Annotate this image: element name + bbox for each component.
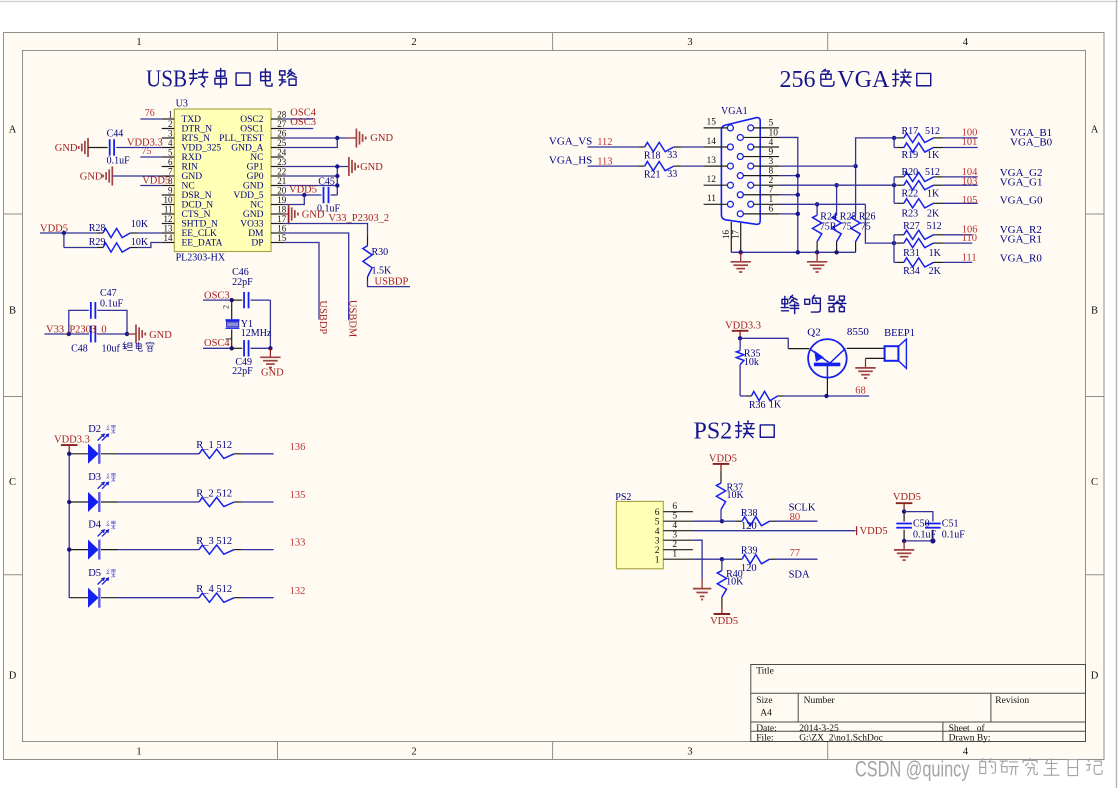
svg-text:GND: GND — [182, 172, 203, 182]
svg-text:6: 6 — [672, 502, 677, 512]
svg-text:22: 22 — [277, 166, 286, 176]
svg-text:68: 68 — [855, 386, 866, 397]
svg-text:GND: GND — [370, 133, 393, 144]
svg-text:16: 16 — [721, 230, 731, 240]
svg-text:SDA: SDA — [789, 570, 810, 581]
svg-text:GND_A: GND_A — [231, 144, 263, 154]
svg-text:10K: 10K — [727, 490, 745, 501]
svg-text:VDD5: VDD5 — [860, 526, 888, 537]
svg-text:17: 17 — [731, 230, 741, 240]
svg-text:D: D — [1091, 671, 1099, 682]
svg-text:USBDM: USBDM — [347, 300, 358, 338]
svg-text:1: 1 — [672, 549, 677, 559]
svg-text:2K: 2K — [929, 266, 942, 277]
svg-text:R_3 512: R_3 512 — [196, 536, 232, 547]
svg-text:2K: 2K — [927, 208, 940, 219]
svg-text:GP1: GP1 — [247, 163, 264, 173]
svg-text:PS2: PS2 — [615, 492, 631, 503]
svg-text:132: 132 — [290, 586, 306, 597]
svg-text:RXD: RXD — [182, 153, 202, 163]
svg-text:C: C — [1091, 477, 1098, 488]
svg-text:B: B — [9, 306, 16, 317]
svg-text:PL2303-HX: PL2303-HX — [176, 252, 226, 263]
svg-text:GND: GND — [261, 368, 284, 379]
svg-text:12: 12 — [707, 175, 717, 185]
svg-text:V33_P2303_0: V33_P2303_0 — [46, 325, 107, 336]
svg-text:10k: 10k — [744, 357, 759, 368]
svg-text:11: 11 — [707, 194, 716, 204]
svg-text:GND: GND — [243, 182, 264, 192]
svg-text:TXD: TXD — [182, 115, 202, 125]
svg-text:512: 512 — [925, 167, 940, 178]
svg-text:R28: R28 — [89, 223, 106, 234]
svg-text:12: 12 — [164, 214, 173, 224]
svg-text:R20: R20 — [902, 167, 919, 178]
svg-text:R31: R31 — [903, 248, 920, 259]
svg-text:1: 1 — [769, 195, 774, 205]
svg-text:3: 3 — [687, 37, 692, 48]
svg-text:101: 101 — [962, 137, 978, 148]
svg-text:R21: R21 — [644, 169, 661, 180]
svg-text:RIN: RIN — [182, 163, 199, 173]
svg-text:USBDP: USBDP — [375, 276, 409, 287]
svg-text:R39: R39 — [741, 546, 758, 557]
svg-text:R29: R29 — [89, 237, 106, 248]
svg-text:PLL_TEST: PLL_TEST — [219, 134, 264, 144]
svg-text:B: B — [1091, 306, 1098, 317]
svg-text:13: 13 — [164, 223, 174, 233]
svg-text:2: 2 — [222, 305, 231, 309]
svg-text:5: 5 — [769, 119, 774, 129]
svg-text:5: 5 — [168, 147, 173, 157]
svg-text:A4: A4 — [760, 709, 772, 719]
svg-text:EE_CLK: EE_CLK — [182, 229, 217, 239]
svg-text:of: of — [977, 723, 986, 734]
svg-text:75R: 75R — [820, 222, 837, 233]
svg-text:14: 14 — [707, 137, 717, 147]
svg-text:R_1 512: R_1 512 — [196, 440, 232, 451]
svg-text:76: 76 — [145, 108, 155, 119]
svg-text:3: 3 — [687, 747, 692, 758]
svg-text:R_2 512: R_2 512 — [196, 488, 232, 499]
svg-text:3: 3 — [769, 157, 774, 167]
svg-text:512: 512 — [927, 221, 942, 232]
svg-text:R30: R30 — [372, 247, 389, 258]
svg-text:R36: R36 — [749, 400, 766, 411]
svg-text:77: 77 — [790, 548, 801, 559]
svg-text:VGA_R0: VGA_R0 — [1000, 252, 1043, 264]
svg-text:DP: DP — [251, 239, 263, 249]
svg-text:4: 4 — [672, 521, 677, 531]
svg-text:22pF: 22pF — [232, 277, 253, 288]
svg-text:R19: R19 — [902, 150, 919, 161]
svg-text:CTS_N: CTS_N — [182, 210, 211, 220]
svg-text:103: 103 — [962, 176, 978, 187]
svg-text:VGA_G0: VGA_G0 — [1000, 195, 1043, 207]
svg-text:3: 3 — [168, 128, 173, 138]
svg-text:C47: C47 — [100, 288, 117, 299]
svg-text:D2: D2 — [88, 424, 101, 435]
svg-text:Title: Title — [756, 667, 774, 677]
svg-text:EE_DATA: EE_DATA — [182, 239, 223, 249]
svg-text:Revision: Revision — [995, 696, 1029, 706]
svg-text:6: 6 — [655, 508, 660, 518]
svg-text:Date:: Date: — [756, 724, 777, 734]
svg-text:33: 33 — [667, 169, 677, 180]
svg-text:1K: 1K — [927, 150, 940, 161]
svg-text:RTS_N: RTS_N — [182, 134, 211, 144]
svg-text:17: 17 — [277, 214, 287, 224]
svg-text:DTR_N: DTR_N — [182, 125, 213, 135]
svg-text:DM: DM — [248, 229, 264, 239]
svg-text:C: C — [9, 477, 16, 488]
svg-text:28: 28 — [277, 109, 287, 119]
svg-text:3: 3 — [655, 536, 660, 546]
svg-text:G:\ZX_2\no1.SchDoc: G:\ZX_2\no1.SchDoc — [799, 733, 883, 743]
svg-text:80: 80 — [790, 512, 801, 523]
svg-text:9: 9 — [168, 185, 173, 195]
svg-text:120: 120 — [741, 521, 757, 532]
svg-text:Number: Number — [804, 696, 836, 706]
svg-text:5: 5 — [672, 511, 677, 521]
svg-text:VGA_VS: VGA_VS — [549, 135, 592, 147]
svg-text:0.1uF: 0.1uF — [913, 529, 937, 540]
svg-text:4: 4 — [963, 37, 969, 48]
svg-text:GND: GND — [149, 330, 172, 341]
svg-text:1: 1 — [655, 555, 660, 565]
svg-text:0.1uF: 0.1uF — [942, 529, 966, 540]
svg-text:NC: NC — [250, 201, 263, 211]
svg-text:13: 13 — [707, 156, 717, 166]
svg-text:NC: NC — [182, 182, 195, 192]
svg-text:512: 512 — [925, 126, 940, 137]
svg-text:6: 6 — [168, 157, 173, 167]
svg-text:R38: R38 — [741, 508, 758, 519]
svg-text:GND: GND — [55, 143, 78, 154]
svg-text:11: 11 — [164, 204, 173, 214]
svg-text:CSDN @quincy: CSDN @quincy — [855, 757, 970, 782]
svg-text:R_4 512: R_4 512 — [196, 584, 232, 595]
svg-text:4: 4 — [168, 138, 173, 148]
svg-text:R34: R34 — [903, 266, 920, 277]
svg-text:Drawn By:: Drawn By: — [949, 733, 991, 743]
svg-text:1K: 1K — [769, 400, 782, 411]
svg-text:VDD3.3: VDD3.3 — [127, 137, 163, 148]
svg-text:GND: GND — [302, 210, 325, 221]
svg-text:GND: GND — [360, 162, 383, 173]
svg-text:1: 1 — [136, 747, 141, 758]
svg-text:VGA_R1: VGA_R1 — [1000, 234, 1042, 246]
svg-text:OSC2: OSC2 — [240, 115, 263, 125]
svg-text:18: 18 — [277, 204, 287, 214]
svg-text:U3: U3 — [176, 99, 188, 110]
svg-text:NC: NC — [250, 153, 263, 163]
svg-text:1: 1 — [168, 109, 173, 119]
svg-text:VDD5: VDD5 — [893, 492, 921, 503]
svg-text:C50: C50 — [913, 519, 930, 530]
svg-text:26: 26 — [277, 128, 287, 138]
svg-text:2: 2 — [411, 37, 416, 48]
svg-text:10K: 10K — [131, 219, 149, 230]
svg-text:0.1uF: 0.1uF — [107, 156, 131, 167]
svg-text:VGA1: VGA1 — [721, 106, 748, 117]
svg-text:8550: 8550 — [847, 326, 870, 338]
svg-text:D4: D4 — [88, 520, 102, 531]
svg-text:21: 21 — [277, 176, 286, 186]
svg-text:BEEP1: BEEP1 — [884, 328, 915, 339]
svg-text:OSC1: OSC1 — [240, 125, 263, 135]
svg-text:10K: 10K — [131, 237, 149, 248]
svg-text:110: 110 — [962, 233, 977, 244]
svg-text:111: 111 — [962, 253, 977, 264]
svg-text:7: 7 — [769, 186, 774, 196]
svg-text:136: 136 — [290, 442, 306, 453]
svg-text:3: 3 — [672, 530, 677, 540]
svg-text:PS2: PS2 — [694, 419, 733, 445]
svg-text:1K: 1K — [927, 189, 940, 200]
svg-text:6: 6 — [769, 205, 774, 215]
svg-text:15: 15 — [707, 118, 717, 128]
svg-text:SHTD_N: SHTD_N — [182, 220, 219, 230]
svg-text:2: 2 — [655, 546, 660, 556]
svg-text:4: 4 — [769, 138, 774, 148]
svg-text:10K: 10K — [726, 577, 744, 588]
svg-text:R17: R17 — [902, 126, 919, 137]
svg-text:C44: C44 — [107, 129, 124, 140]
svg-text:19: 19 — [277, 195, 287, 205]
svg-text:R22: R22 — [902, 189, 919, 200]
svg-text:D3: D3 — [88, 472, 101, 483]
svg-text:GP0: GP0 — [247, 172, 264, 182]
svg-text:27: 27 — [277, 119, 287, 129]
svg-text:2: 2 — [411, 747, 416, 758]
svg-text:133: 133 — [290, 538, 306, 549]
svg-text:VDD3.3: VDD3.3 — [54, 435, 90, 446]
svg-text:1: 1 — [136, 37, 141, 48]
svg-text:23: 23 — [277, 157, 287, 167]
svg-text:VDD5: VDD5 — [142, 176, 170, 187]
svg-text:135: 135 — [290, 490, 306, 501]
svg-text:VO33: VO33 — [240, 220, 263, 230]
svg-text:8: 8 — [769, 166, 774, 176]
svg-text:Size: Size — [756, 696, 772, 706]
svg-text:Q2: Q2 — [807, 327, 820, 339]
svg-text:V33_P2303_2: V33_P2303_2 — [328, 213, 389, 224]
svg-text:DSR_N: DSR_N — [182, 191, 212, 201]
svg-text:VGA_G1: VGA_G1 — [1000, 176, 1043, 188]
svg-text:VGA_B0: VGA_B0 — [1010, 137, 1053, 149]
svg-text:25: 25 — [277, 138, 287, 148]
svg-text:C51: C51 — [942, 519, 959, 530]
svg-text:10: 10 — [769, 128, 779, 138]
svg-text:USB: USB — [146, 67, 187, 93]
svg-text:256: 256 — [780, 67, 816, 93]
svg-text:R18: R18 — [644, 151, 661, 162]
svg-text:120: 120 — [741, 563, 757, 574]
svg-text:2: 2 — [168, 119, 173, 129]
svg-text:10: 10 — [164, 195, 174, 205]
svg-text:1: 1 — [224, 337, 233, 341]
svg-text:2: 2 — [769, 176, 774, 186]
svg-text:R27: R27 — [903, 221, 920, 232]
svg-text:VGA: VGA — [837, 67, 890, 93]
svg-text:D: D — [9, 671, 17, 682]
svg-text:9: 9 — [769, 147, 774, 157]
svg-text:1K: 1K — [929, 248, 942, 259]
svg-text:OSC3: OSC3 — [290, 117, 316, 128]
svg-text:VDD_325: VDD_325 — [182, 144, 222, 154]
svg-text:USBDP: USBDP — [317, 300, 328, 334]
svg-text:2014-3-25: 2014-3-25 — [799, 724, 839, 734]
svg-text:VDD_5: VDD_5 — [233, 191, 263, 201]
svg-text:1.5K: 1.5K — [372, 266, 393, 277]
svg-text:GND: GND — [80, 171, 103, 182]
svg-text:75: 75 — [842, 222, 852, 233]
svg-text:Sheet: Sheet — [949, 724, 970, 734]
svg-text:C48: C48 — [71, 344, 88, 355]
svg-text:A: A — [9, 125, 17, 136]
svg-text:5: 5 — [655, 517, 660, 527]
svg-text:VDD5: VDD5 — [709, 454, 737, 465]
svg-text:12MHz: 12MHz — [241, 328, 272, 339]
svg-text:C45: C45 — [318, 177, 335, 188]
svg-text:VGA_HS: VGA_HS — [549, 154, 592, 166]
svg-text:A: A — [1091, 125, 1099, 136]
svg-text:16: 16 — [277, 223, 287, 233]
svg-text:OSC3: OSC3 — [204, 291, 230, 302]
svg-text:20: 20 — [277, 185, 287, 195]
svg-text:2: 2 — [672, 540, 677, 550]
svg-text:33: 33 — [667, 150, 677, 161]
svg-text:15: 15 — [277, 233, 287, 243]
svg-text:105: 105 — [962, 195, 978, 206]
svg-text:10uf: 10uf — [102, 344, 121, 355]
svg-text:14: 14 — [164, 233, 174, 243]
svg-text:GND: GND — [243, 210, 264, 220]
svg-text:D5: D5 — [88, 568, 101, 579]
svg-text:VDD5: VDD5 — [710, 616, 738, 627]
svg-text:R23: R23 — [902, 208, 919, 219]
svg-text:File:: File: — [756, 733, 773, 743]
svg-text:24: 24 — [277, 147, 287, 157]
svg-text:0.1uF: 0.1uF — [100, 299, 124, 310]
svg-text:4: 4 — [655, 527, 660, 537]
svg-text:DCD_N: DCD_N — [182, 201, 214, 211]
svg-text:22pF: 22pF — [232, 366, 253, 377]
